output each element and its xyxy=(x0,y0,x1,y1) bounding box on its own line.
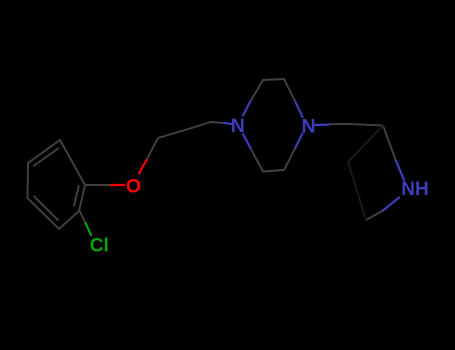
svg-text:N: N xyxy=(301,116,315,138)
svg-text:O: O xyxy=(126,175,141,197)
svg-text:N: N xyxy=(231,115,245,137)
svg-text:NH: NH xyxy=(401,179,428,200)
svg-text:Cl: Cl xyxy=(90,235,109,256)
